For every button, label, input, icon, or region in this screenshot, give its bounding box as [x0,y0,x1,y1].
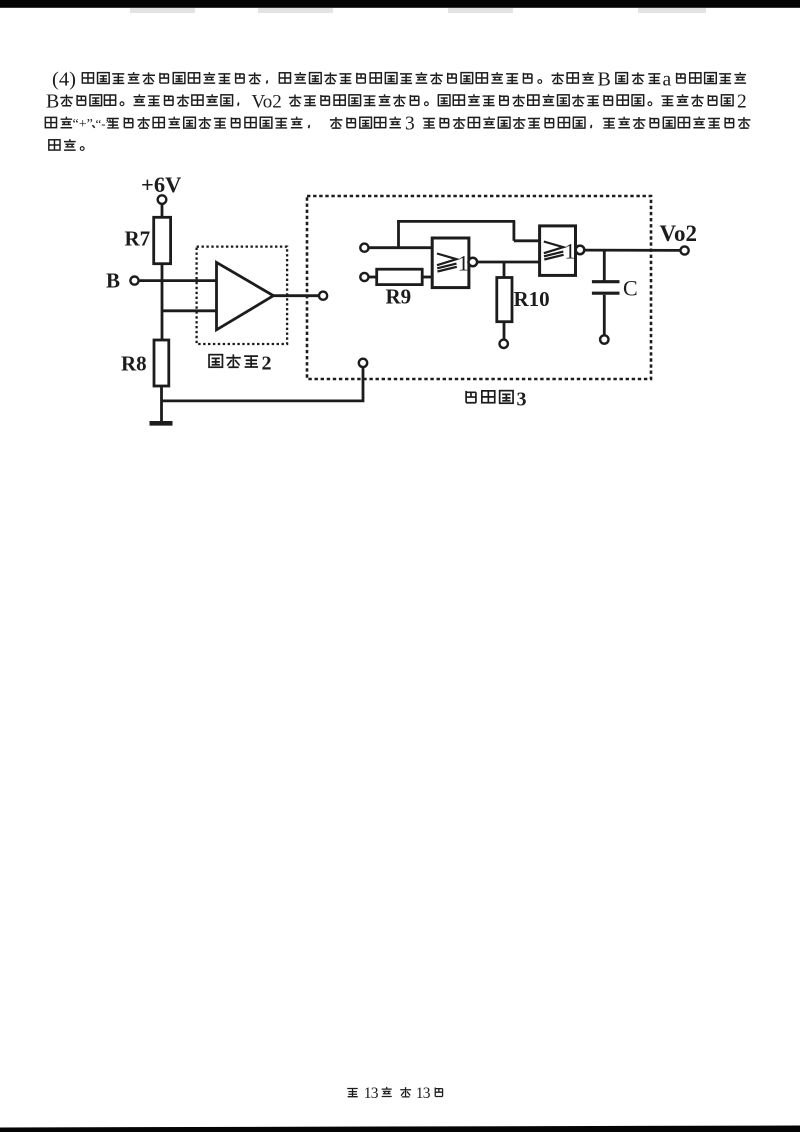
ground [150,421,173,426]
paragraph line 3 [45,114,750,135]
svg-text:“+”: “+” [73,117,93,132]
gate U1 input terminal B [360,273,368,281]
capacitor C top plate [592,280,620,283]
svg-text:(4): (4) [52,68,76,90]
Vo2 output terminal [681,246,689,254]
svg-text:R8: R8 [121,352,147,376]
wire: capacitor to its terminal [603,295,606,336]
svg-text:B: B [46,91,59,113]
paragraph line 4 [49,139,84,150]
paragraph line 1 [52,68,746,90]
label 虚线框2 [209,353,271,375]
svg-text:R7: R7 [125,227,151,251]
wire: tap down to R10 [503,262,506,278]
U1 output inversion bubble [469,258,478,267]
svg-text:Vo2: Vo2 [252,92,282,113]
capacitor bottom terminal [600,335,608,343]
wire: ground node to box3 bottom terminal [162,367,364,401]
svg-text:1: 1 [565,239,576,264]
paragraph line 2 [46,91,747,113]
wire: terminal A to gate U1 top input [369,246,433,249]
wire: R7 to R8 (node B column) [161,264,164,340]
label 虚线框3 [466,389,526,411]
OR gate U2 (>=1) [540,226,576,276]
dashed box 3 [307,196,651,379]
U1 >=1 symbol [437,254,457,272]
resistor R7 [154,217,171,263]
svg-text:+6V: +6V [141,172,181,197]
power terminal [158,195,167,204]
wire: +6V terminal to R7 [161,204,164,218]
svg-text:13: 13 [416,1085,431,1102]
wire: feedback top run [397,220,515,223]
svg-text:3: 3 [405,114,415,135]
svg-text:R9: R9 [386,285,412,309]
U2 >=1 symbol [544,242,564,260]
wire: R9 to gate U1 lower input [422,276,432,279]
svg-text:B: B [598,68,611,90]
wire: R8 to ground [160,386,163,423]
svg-text:R10: R10 [514,287,550,311]
svg-text:13: 13 [364,1085,379,1102]
resistor R9 [377,269,423,284]
dashed box 2 [197,247,288,344]
resistor R10 [497,278,512,322]
wire: comparator output [273,294,319,297]
comparator (op-amp triangle) [217,262,274,329]
OR gate U1 (>=1) [432,238,469,288]
svg-text:a: a [663,69,672,90]
svg-text:Vo2: Vo2 [660,221,698,246]
wire: output node down to capacitor [603,250,606,280]
svg-text:C: C [623,275,638,300]
box3 bottom terminal [359,359,367,367]
footer page number [347,1085,442,1102]
wire: node column to comparator lower input [162,309,217,312]
scan smudges under top bar [130,8,706,13]
wire: B terminal to comparator upper input [139,279,217,282]
comparator output terminal [319,292,327,300]
capacitor C bottom plate [592,292,620,295]
resistor R8 [154,340,169,386]
wire: terminal B to R9 [369,276,378,279]
gate U1 input terminal A [360,244,368,252]
R10 bottom terminal [500,340,508,348]
svg-text:B: B [106,269,120,293]
svg-text:2: 2 [737,92,747,113]
wire: into U2 top input [514,239,540,242]
bottom scan border bar [0,1126,800,1132]
wire: R10 to its terminal [503,322,506,340]
svg-text:2: 2 [262,353,272,375]
wire: drop to gate U2 top input [513,221,516,240]
U2 output inversion bubble [576,246,585,255]
wire: U2 output to Vo2 terminal [584,249,680,252]
top scan border bar [0,0,800,8]
svg-text:1: 1 [458,251,469,276]
svg-text:3: 3 [517,389,527,411]
wire: feedback drop to U1 input node [397,220,400,248]
wire: U1 output to U2 lower input [477,261,539,264]
node B terminal [130,277,138,285]
